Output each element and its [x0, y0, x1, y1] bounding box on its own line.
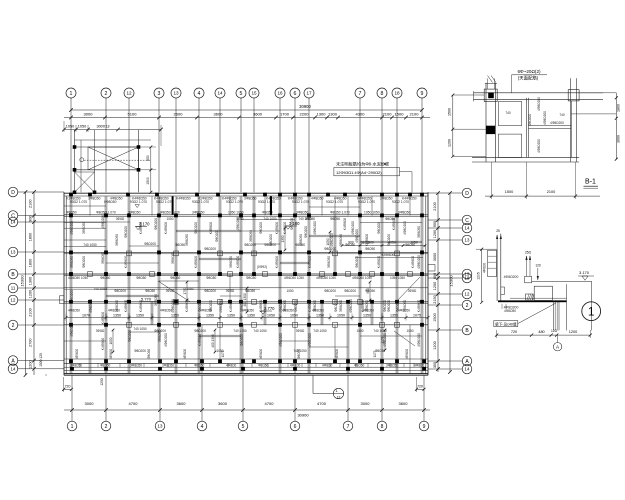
grid axis line C (right) [428, 219, 462, 221]
grid axis line 14 (left) [18, 221, 64, 223]
svg-text:3Φ8Ω50: 3Φ8Ω50 [185, 234, 189, 246]
svg-text:2150: 2150 [433, 295, 437, 303]
grid bubble 1 (top) [66, 88, 76, 98]
svg-text:93Ω2 1.070: 93Ω2 1.070 [70, 200, 87, 204]
dark door jamb bars in top band [270, 196, 272, 215]
svg-text:Φ8Ω200: Φ8Ω200 [204, 247, 216, 251]
interior vertical beam x=410 [409, 196, 411, 215]
svg-text:K4Φ8Ω0: K4Φ8Ω0 [417, 300, 421, 313]
svg-text:4Φ8Ω50: 4Φ8Ω50 [68, 309, 80, 313]
interior dimension row 1350s [66, 317, 428, 319]
svg-text:14: 14 [11, 220, 16, 225]
svg-text:12: 12 [126, 91, 132, 96]
svg-text:1050: 1050 [186, 287, 193, 291]
svg-text:13: 13 [465, 238, 470, 243]
svg-text:1300: 1300 [29, 277, 33, 285]
top sub-dimension line 1050/1050/300X13 [64, 129, 161, 131]
grid axis line 18 (right) [428, 277, 462, 279]
svg-text:Φ8Ω50: Φ8Ω50 [170, 276, 180, 280]
svg-text:5: 5 [242, 424, 245, 430]
svg-text:3Φ8Ω: 3Φ8Ω [296, 329, 305, 333]
svg-text:3Φ8Ω50: 3Φ8Ω50 [249, 230, 253, 242]
grid bubble C (right) [462, 215, 472, 225]
svg-text:12: 12 [465, 292, 470, 297]
interior vertical beam x=372 [371, 196, 373, 215]
svg-text:1050: 1050 [356, 329, 363, 333]
svg-text:300: 300 [433, 362, 437, 368]
grid axis line 19 (right) [428, 273, 462, 275]
svg-text:3Φ8Ω50: 3Φ8Ω50 [313, 300, 317, 312]
svg-text:K4Φ8Ω0: K4Φ8Ω0 [411, 256, 415, 269]
grid bubble 12 (left) [8, 295, 18, 305]
svg-text:Φ8Ω50: Φ8Ω50 [145, 289, 155, 293]
svg-text:Φ8Ω200: Φ8Ω200 [215, 230, 219, 242]
svg-text:Φ8Ω200: Φ8Ω200 [194, 222, 198, 234]
svg-text:740: 740 [505, 111, 511, 115]
interior vertical beam x=265 [264, 196, 266, 215]
section wall top arrows [496, 235, 498, 249]
interior vertical beam x=176 [174, 215, 176, 373]
interior vertical beam x=106 [104, 196, 106, 373]
grid bubble 17 (top) [304, 88, 314, 98]
grid axis line 5 (top) [240, 98, 242, 192]
svg-text:1050: 1050 [406, 329, 413, 333]
B-1 right dimension line [615, 93, 617, 159]
svg-text:C: C [11, 213, 15, 219]
B-1 room box lower [498, 134, 521, 157]
grid bubble 19 (right) [462, 269, 472, 279]
plan outer wall left (double line) [63, 192, 65, 375]
svg-text:2: 2 [466, 303, 469, 309]
svg-text:900: 900 [433, 221, 437, 227]
svg-text:Φ8Ω50: Φ8Ω50 [385, 217, 395, 221]
svg-text:(天面配筋): (天面配筋) [518, 74, 539, 81]
column row y=301.8 [69, 300, 73, 304]
svg-text:1: 1 [588, 307, 594, 319]
svg-text:740 1050: 740 1050 [93, 287, 107, 291]
svg-text:Φ8Ω200: Φ8Ω200 [114, 289, 126, 293]
grid axis line 12 (left) [18, 299, 64, 301]
grid axis line 4 (top) [198, 98, 200, 192]
svg-text:3Φ8Ω50: 3Φ8Ω50 [403, 300, 407, 312]
grid bubble B (right) [462, 325, 472, 335]
svg-text:3Φ8Ω50: 3Φ8Ω50 [398, 210, 411, 214]
svg-text:1: 1 [71, 424, 74, 430]
svg-text:Φ8Ω50: Φ8Ω50 [365, 289, 375, 293]
plan beam row 1/4 bottom (double line) [64, 366, 428, 368]
svg-text:93Ω2 1.070: 93Ω2 1.070 [292, 200, 309, 204]
svg-text:K4Φ8Ω0: K4Φ8Ω0 [308, 300, 312, 313]
svg-text:2100: 2100 [29, 200, 33, 208]
grid bubble 12 (right) [462, 289, 472, 299]
interior vertical beam x=382 [380, 196, 382, 373]
svg-text:1175: 1175 [373, 350, 377, 357]
interior dim row right y=245.5 [342, 245, 425, 247]
svg-text:4Φ8Ω200: 4Φ8Ω200 [101, 215, 105, 229]
B-1 right extension arrows [571, 113, 616, 115]
annex dashed service line [84, 159, 150, 161]
svg-text:1350: 1350 [390, 313, 398, 317]
svg-text:3600: 3600 [399, 401, 409, 406]
interior horizontal beam y=219.5 [241, 219, 295, 221]
svg-text:1350: 1350 [136, 313, 144, 317]
plan beam row B (double line) [64, 273, 428, 275]
svg-text:4Φ8Ω200: 4Φ8Ω200 [537, 139, 541, 153]
svg-text:1050: 1050 [337, 313, 345, 317]
section right wall below [552, 302, 554, 331]
interior vertical beam x=71 [69, 196, 71, 373]
plan beam row A (double line) [64, 358, 428, 360]
section wall bottom step [501, 286, 505, 288]
svg-text:740 1050: 740 1050 [253, 329, 267, 333]
svg-text:K4Φ8Ω0: K4Φ8Ω0 [229, 300, 233, 313]
interior vertical beam x=348 [346, 302, 348, 374]
grid axis extension line 9 (bottom) [423, 375, 425, 421]
svg-text:3Φ8Ω50: 3Φ8Ω50 [283, 300, 287, 312]
plan beam row C [64, 214, 428, 216]
svg-text:93Ω2 1.070: 93Ω2 1.070 [358, 200, 375, 204]
svg-text:Φ8Ω50: Φ8Ω50 [354, 363, 364, 367]
svg-text:4300: 4300 [356, 112, 366, 117]
svg-text:16: 16 [277, 91, 283, 96]
interior vertical beam x=243 [242, 325, 244, 374]
svg-text:1200: 1200 [29, 290, 33, 298]
svg-text:3Φ8Ω50: 3Φ8Ω50 [327, 256, 331, 268]
svg-text:15300: 15300 [449, 275, 454, 287]
section leader box note [494, 321, 518, 327]
svg-text:4Φ8Ω200: 4Φ8Ω200 [417, 333, 421, 347]
interior vertical beam x=265 [263, 302, 265, 325]
grid axis line D (left) [18, 191, 64, 193]
svg-text:4Φ8Ω50 1050: 4Φ8Ω50 1050 [284, 276, 304, 280]
svg-text:K4Φ8Ω0: K4Φ8Ω0 [101, 338, 105, 351]
svg-text:K4Φ8Ω50: K4Φ8Ω50 [176, 197, 191, 201]
grid bubble 5 (top) [236, 88, 246, 98]
svg-text:5: 5 [240, 91, 243, 97]
grid axis extension line 1 (bottom) [71, 375, 73, 421]
svg-text:4Φ8Ω50 1050: 4Φ8Ω50 1050 [316, 276, 336, 280]
grid axis line B (right) [428, 329, 462, 331]
svg-text:Φ8Ω50 1.070: Φ8Ω50 1.070 [160, 210, 180, 214]
svg-text:Φ8Ω200: Φ8Ω200 [194, 329, 206, 333]
interior horizontal beam y=246 [129, 245, 159, 247]
svg-text:3.770: 3.770 [264, 306, 275, 311]
interior vertical beam x=322 [321, 196, 323, 215]
B-1 bottom beam (double line) [472, 156, 579, 158]
svg-text:300X13: 300X13 [96, 124, 109, 128]
interior vertical beam x=199 [197, 196, 199, 373]
svg-text:1200: 1200 [433, 341, 437, 349]
svg-text:1350: 1350 [316, 313, 324, 317]
svg-text:740 1050: 740 1050 [263, 217, 277, 221]
grid axis line 2 (right) [428, 304, 462, 306]
svg-text:14: 14 [465, 367, 470, 372]
svg-text:1500: 1500 [433, 313, 437, 321]
grid axis line 6 (top) [294, 98, 296, 192]
annex X-braced slab opening [88, 147, 139, 170]
svg-text:1700: 1700 [280, 112, 290, 117]
svg-text:2600: 2600 [174, 112, 184, 117]
svg-text:3Φ8Ω50: 3Φ8Ω50 [171, 252, 175, 264]
section rebar box left [488, 250, 497, 276]
grid bubble 2 (right) [462, 300, 472, 310]
svg-text:400 1300: 400 1300 [211, 334, 215, 348]
svg-text:2: 2 [105, 91, 108, 97]
svg-text:3000: 3000 [85, 401, 95, 406]
svg-text:4: 4 [201, 424, 204, 430]
svg-text:4700: 4700 [129, 401, 139, 406]
svg-text:740 1050: 740 1050 [373, 329, 387, 333]
grid axis line C (left) [18, 215, 64, 217]
svg-text:740 1050: 740 1050 [133, 327, 147, 331]
svg-text:Φ8Ω200: Φ8Ω200 [355, 256, 359, 268]
section detail number circle 1 [582, 302, 601, 321]
svg-text:4Φ8Ω50 1050: 4Φ8Ω50 1050 [68, 276, 88, 280]
interior vertical beam x=335 [333, 215, 335, 274]
svg-text:4Φ8Ω50: 4Φ8Ω50 [504, 309, 516, 313]
grid axis line 8 (top) [381, 98, 383, 192]
svg-text:1050: 1050 [236, 217, 243, 221]
svg-text:4Φ8Ω200: 4Φ8Ω200 [537, 97, 541, 111]
section beam outline [534, 286, 552, 300]
interior vertical beam x=280 [278, 196, 280, 373]
svg-text:4Φ8Ω0: 4Φ8Ω0 [322, 363, 332, 367]
svg-text:Φ8Ω200: Φ8Ω200 [244, 243, 256, 247]
B-1 bottom dimension line [485, 195, 600, 197]
svg-text:K4Φ8Ω0: K4Φ8Ω0 [377, 256, 381, 269]
svg-text:B-1: B-1 [585, 179, 596, 186]
grid axis line 17 (top) [308, 98, 310, 192]
svg-text:3000: 3000 [84, 112, 94, 117]
svg-text:3600: 3600 [214, 112, 224, 117]
svg-text:3600: 3600 [177, 401, 187, 406]
grid bubble 14 (right) [462, 364, 472, 374]
grid bubble 18 (right) [462, 273, 472, 283]
svg-text:15: 15 [251, 91, 257, 96]
annex circle fixture [80, 158, 84, 162]
room vertical mini-dimensions [284, 228, 286, 250]
grid bubble 6 (top) [290, 88, 300, 98]
svg-text:13: 13 [173, 91, 179, 96]
interior vertical beam x=152 [150, 302, 152, 325]
svg-text:Φ8Ω200: Φ8Ω200 [128, 330, 132, 342]
grid axis line 7 (top) [359, 98, 361, 192]
svg-text:93Ω2 1.070: 93Ω2 1.070 [392, 200, 409, 204]
interior vertical beam x=220 [218, 196, 220, 274]
grid bubble A (left) [8, 356, 18, 366]
svg-text:4700: 4700 [265, 401, 275, 406]
B-1 middle wall (double line) [525, 98, 527, 158]
svg-text:Φ8Ω200: Φ8Ω200 [264, 243, 276, 247]
grid axis line 14 (left) [18, 368, 64, 370]
svg-text:3Φ8Ω50: 3Φ8Ω50 [244, 197, 257, 201]
interior vertical beam x=230 [229, 274, 231, 303]
grid bubble D (right) [462, 188, 472, 198]
svg-text:480: 480 [538, 330, 544, 334]
interior vertical beam x=202 [201, 325, 203, 374]
svg-text:2100: 2100 [433, 202, 437, 210]
svg-text:2100: 2100 [29, 308, 33, 316]
column row y=194.6 [69, 193, 73, 197]
grid axis line 13 (top) [175, 98, 177, 192]
svg-text:6: 6 [294, 424, 297, 430]
svg-text:93Ω2 1.070: 93Ω2 1.070 [326, 200, 343, 204]
interior vertical beam x=220 [219, 302, 221, 359]
grid bubble 9 (top) [417, 88, 427, 98]
small level triangle under top beam [135, 205, 139, 208]
svg-text:Φ8Ω50: Φ8Ω50 [295, 243, 305, 247]
svg-text:Φ8Ω200: Φ8Ω200 [377, 222, 381, 234]
svg-text:1350: 1350 [363, 313, 371, 317]
grid axis line 16 (top) [279, 98, 281, 192]
svg-text:720: 720 [511, 330, 517, 334]
interior horizontal beam y=222.5 [360, 222, 422, 224]
grid bubble 5 (bottom) [238, 421, 248, 431]
B-1 column top-left (concrete filled) [484, 89, 497, 101]
svg-text:Φ8Ω200: Φ8Ω200 [344, 289, 356, 293]
B-1 rebar symbol above left column [485, 83, 497, 85]
grid axis extension line 6 (bottom) [294, 375, 296, 421]
interior horizontal beam y=231 [176, 229, 241, 231]
svg-text:740 1050: 740 1050 [83, 243, 97, 247]
svg-text:3Φ8Ω50: 3Φ8Ω50 [162, 363, 174, 367]
annex outline [74, 130, 76, 192]
svg-text:9: 9 [421, 91, 424, 97]
grid bubble 13 (right) [462, 235, 472, 245]
grid bubble A (right) [462, 356, 472, 366]
svg-text:Φ8Ω50: Φ8Ω50 [100, 363, 110, 367]
svg-text:K4Φ8Ω0: K4Φ8Ω0 [124, 256, 128, 269]
plan beam row 1/4 [64, 221, 130, 223]
svg-text:Φ8Ω200: Φ8Ω200 [144, 242, 156, 246]
svg-text:1200: 1200 [433, 282, 437, 290]
svg-text:K4Φ8Ω0: K4Φ8Ω0 [124, 300, 128, 313]
svg-text:3Φ8Ω50: 3Φ8Ω50 [240, 300, 244, 312]
svg-text:3Φ8Ω50: 3Φ8Ω50 [296, 210, 309, 214]
grid bubble 18 (top) [392, 88, 402, 98]
grid axis line 15 (top) [253, 98, 255, 192]
section wall double line [496, 249, 498, 301]
svg-text:1800: 1800 [29, 259, 33, 267]
svg-text:2: 2 [12, 323, 15, 329]
grid bubble 7 (top) [355, 88, 365, 98]
svg-text:3Φ8Ω: 3Φ8Ω [408, 289, 417, 293]
svg-text:93Ω2 1.070: 93Ω2 1.070 [226, 200, 243, 204]
interior vertical beam x=152 [151, 196, 153, 215]
plan beam row 2 [64, 324, 428, 326]
svg-text:2100: 2100 [547, 190, 555, 194]
section hatched beam block [525, 294, 533, 300]
svg-text:3Φ8Ω50: 3Φ8Ω50 [339, 300, 343, 312]
svg-text:6Φ~20Ω(2): 6Φ~20Ω(2) [517, 69, 541, 74]
svg-text:650: 650 [146, 155, 150, 161]
svg-text:4Φ8Ω200: 4Φ8Ω200 [171, 299, 175, 313]
svg-text:未注明板筋均为Φ8·水泥砂浆: 未注明板筋均为Φ8·水泥砂浆 [336, 161, 390, 168]
svg-text:1500: 1500 [505, 190, 513, 194]
interior horizontal beam y=347 [309, 346, 348, 348]
bottom-right 720 dimension [417, 388, 425, 390]
grid bubble 8 (bottom) [377, 421, 387, 431]
bottom band module dividers [79, 363, 81, 367]
B-1 right mid beam [529, 125, 572, 127]
B-1 column mid-left (filled) [486, 126, 495, 134]
svg-text:12: 12 [11, 298, 16, 303]
interior horizontal beam y=296 [335, 295, 360, 297]
svg-text:3.170: 3.170 [579, 270, 590, 275]
grid bubble 7 (bottom) [343, 421, 353, 431]
svg-text:4Φ8Ω200: 4Φ8Ω200 [550, 121, 564, 125]
svg-text:Φ8Ω50: Φ8Ω50 [245, 289, 255, 293]
B-1 left dimension line [452, 95, 454, 156]
grid axis line 1 (top) [70, 98, 72, 192]
grid bubble 13 (top) [171, 88, 181, 98]
svg-text:1200: 1200 [100, 378, 104, 386]
svg-text:4700: 4700 [317, 401, 327, 406]
svg-text:12: 12 [337, 395, 341, 399]
svg-text:Φ8Ω200: Φ8Ω200 [334, 300, 338, 312]
svg-text:1050 1050: 1050 1050 [390, 276, 405, 280]
grid axis line 12 (right) [428, 293, 462, 295]
svg-text:3Φ8Ω50: 3Φ8Ω50 [386, 363, 398, 367]
interior horizontal beam y=236 [309, 234, 360, 236]
svg-text:1800: 1800 [29, 233, 33, 241]
svg-text:Φ8Ω200: Φ8Ω200 [124, 226, 128, 238]
interior horizontal beam y=341 [64, 340, 106, 342]
svg-text:1500: 1500 [448, 108, 452, 116]
svg-text:K4Φ8Ω0: K4Φ8Ω0 [308, 256, 312, 269]
svg-text:2200: 2200 [300, 112, 310, 117]
svg-text:900: 900 [29, 216, 33, 222]
svg-text:8: 8 [381, 91, 384, 97]
svg-text:740: 740 [559, 113, 565, 117]
svg-text:Φ8Ω50: Φ8Ω50 [258, 363, 268, 367]
svg-text:1050: 1050 [66, 124, 74, 128]
svg-text:K4Φ8Ω0: K4Φ8Ω0 [259, 300, 263, 313]
grid axis line 2 (left) [18, 324, 64, 326]
svg-text:1050: 1050 [109, 337, 113, 344]
svg-text:1050: 1050 [290, 313, 298, 317]
svg-text:7: 7 [347, 424, 350, 430]
column row y=361.2 [69, 359, 73, 363]
svg-text:K4Φ8Ω0: K4Φ8Ω0 [139, 222, 143, 235]
plan beam row 1/3 [64, 251, 428, 253]
stair diagonal right [395, 277, 420, 303]
svg-text:1500: 1500 [395, 112, 405, 117]
svg-text:17: 17 [306, 91, 312, 96]
grid axis line 14 (top) [219, 98, 221, 192]
interior horizontal beam y=296 [106, 294, 159, 296]
svg-text:25: 25 [496, 229, 500, 233]
grid axis line 2 (top) [105, 98, 107, 192]
svg-text:13: 13 [158, 424, 163, 429]
svg-text:Φ8Ω200: Φ8Ω200 [198, 300, 202, 312]
svg-text:1350: 1350 [113, 313, 121, 317]
svg-text:K4Φ8Ω0: K4Φ8Ω0 [194, 256, 198, 269]
svg-text:4Φ8Ω0: 4Φ8Ω0 [290, 363, 300, 367]
svg-text:2100: 2100 [383, 112, 393, 117]
svg-text:2700: 2700 [29, 339, 33, 347]
svg-text:Φ8Ω50: Φ8Ω50 [206, 276, 216, 280]
grid axis extension line 7 (bottom) [347, 375, 349, 421]
svg-text:Φ8Ω200: Φ8Ω200 [324, 289, 336, 293]
interior horizontal beam y=263 [106, 262, 159, 264]
interior horizontal beam y=336 [199, 334, 241, 336]
column row y=324.8 [69, 323, 73, 327]
grid axis line 18 (top) [396, 98, 398, 192]
svg-text:Φ8Ω50: Φ8Ω50 [66, 210, 77, 214]
svg-text:Φ8Ω50: Φ8Ω50 [330, 217, 340, 221]
grid axis line A (right) [428, 360, 462, 362]
